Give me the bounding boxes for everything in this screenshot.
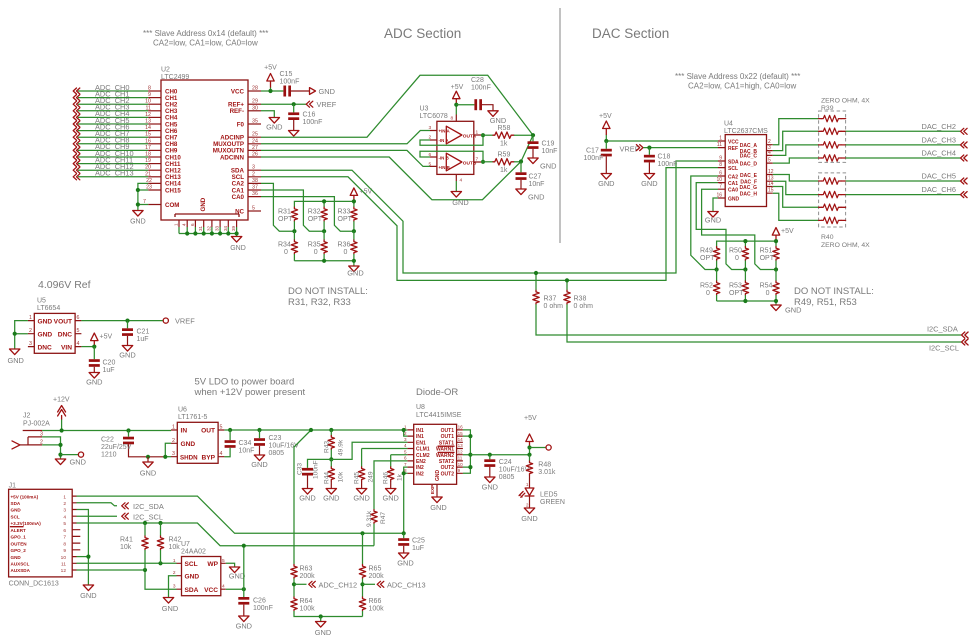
svg-text:U8: U8 xyxy=(416,404,425,411)
junction COM xyxy=(136,202,140,206)
ground dividers xyxy=(315,617,331,638)
junction U5 gnd xyxy=(13,332,17,336)
svg-text:GND: GND xyxy=(397,559,413,568)
svg-text:9: 9 xyxy=(458,468,461,473)
svg-text:100nF: 100nF xyxy=(280,79,300,86)
net stub ADC_CH9 xyxy=(73,142,161,153)
svg-text:IN1: IN1 xyxy=(416,434,424,440)
capacitor C16 100nF xyxy=(288,104,322,130)
resistor R40.3 xyxy=(819,204,846,210)
capacitor C20 1uF xyxy=(89,347,116,374)
ground for COM xyxy=(130,211,146,226)
svg-text:R31: R31 xyxy=(278,209,291,216)
svg-text:11: 11 xyxy=(458,456,463,461)
resistor R40.4 xyxy=(819,217,846,223)
svg-text:OUT2: OUT2 xyxy=(441,471,455,477)
svg-text:GND: GND xyxy=(382,494,398,503)
junction R37 top xyxy=(534,271,538,275)
svg-text:EN1: EN1 xyxy=(416,440,426,446)
wire CA1 to R32 xyxy=(261,190,324,231)
svg-text:100nF: 100nF xyxy=(584,155,604,162)
junction CH15 xyxy=(136,188,140,192)
svg-text:31: 31 xyxy=(198,225,203,231)
svg-text:GND: GND xyxy=(347,269,363,278)
junction rail R50 xyxy=(743,239,747,243)
svg-text:30: 30 xyxy=(252,105,258,111)
svg-text:ADC_CH13: ADC_CH13 xyxy=(387,580,426,589)
resistor R49 OPT xyxy=(700,247,720,270)
svg-text:VREF: VREF xyxy=(317,100,337,109)
U2 bottom GND pins xyxy=(174,220,237,237)
svg-text:ADCINN: ADCINN xyxy=(220,154,245,161)
svg-text:10nF: 10nF xyxy=(542,148,558,155)
svg-text:13: 13 xyxy=(458,443,464,448)
svg-text:LTC2499: LTC2499 xyxy=(161,74,189,81)
net stub ADC_CH7 xyxy=(73,129,161,140)
svg-text:DAC Section: DAC Section xyxy=(592,26,669,41)
ground U2 bus xyxy=(230,237,246,253)
svg-text:R50: R50 xyxy=(729,248,742,255)
svg-text:0: 0 xyxy=(766,290,770,297)
junction IN2 pin8 xyxy=(402,471,406,475)
svg-text:SCL: SCL xyxy=(728,166,738,172)
svg-text:WARN1: WARN1 xyxy=(436,447,454,453)
junction +5V/C17 xyxy=(604,139,608,143)
svg-text:R38: R38 xyxy=(574,296,587,303)
resistor R52 0 xyxy=(700,270,720,302)
svg-text:STAT2: STAT2 xyxy=(439,459,454,465)
wire DAC_H to R40.4 xyxy=(773,193,819,220)
svg-text:6: 6 xyxy=(63,528,66,534)
net stub ADC_CH1 xyxy=(73,89,161,100)
junction CA1 node xyxy=(322,229,326,233)
wire IN2 vertical from +5V(100mA) rail xyxy=(404,467,408,533)
svg-text:R33: R33 xyxy=(338,209,351,216)
svg-text:DAC_CH2: DAC_CH2 xyxy=(922,122,957,131)
net stub ADC_CH12 xyxy=(294,580,357,589)
svg-text:DNC: DNC xyxy=(58,331,73,338)
svg-text:0: 0 xyxy=(314,249,318,256)
svg-text:10nF: 10nF xyxy=(529,181,545,188)
ground C19 xyxy=(528,158,557,171)
svg-text:4.096V Ref: 4.096V Ref xyxy=(38,279,91,291)
pin NC stub xyxy=(248,206,261,212)
svg-text:14: 14 xyxy=(145,125,151,131)
svg-text:I2C_SDA: I2C_SDA xyxy=(133,502,164,511)
ground C16 xyxy=(289,131,299,137)
net DAC_CH6 xyxy=(846,185,968,198)
svg-text:GND: GND xyxy=(598,179,614,188)
resistor R32 OPT xyxy=(308,207,328,231)
ground U7 xyxy=(162,598,178,614)
svg-text:35: 35 xyxy=(252,119,258,125)
resistor R34 0 xyxy=(278,231,298,261)
wire +12V rail to U6 IN xyxy=(42,430,171,432)
svg-text:14: 14 xyxy=(458,437,464,442)
resistor R41 10k xyxy=(120,523,148,570)
svg-text:DAC_H: DAC_H xyxy=(740,192,758,198)
ic U7 24AA02 body xyxy=(181,541,221,596)
svg-text:100nF: 100nF xyxy=(303,119,323,126)
wire GND rail R52-R54 xyxy=(717,301,776,305)
svg-text:R47: R47 xyxy=(380,512,387,524)
junction divider gnd xyxy=(319,614,323,618)
svg-text:3.01k: 3.01k xyxy=(538,469,556,476)
svg-text:R34: R34 xyxy=(278,242,291,249)
junction R51/R54 xyxy=(774,267,778,271)
svg-text:39: 39 xyxy=(231,225,236,231)
junction VCC/C26 xyxy=(242,587,246,591)
svg-text:CH15: CH15 xyxy=(165,187,181,194)
svg-text:SDA: SDA xyxy=(11,501,21,506)
wire IN1 pin2 vertical xyxy=(404,430,408,436)
svg-text:GND: GND xyxy=(80,591,96,600)
junction OUTB feedback xyxy=(481,160,485,164)
svg-text:SCL: SCL xyxy=(11,514,20,519)
svg-text:1: 1 xyxy=(174,223,179,226)
svg-text:*** Slave Address 0x22 (defaul: *** Slave Address 0x22 (default) *** xyxy=(675,72,800,81)
junction +5V rail xyxy=(527,453,531,457)
svg-text:GND: GND xyxy=(140,469,156,478)
svg-text:CA2: CA2 xyxy=(728,174,738,180)
junction +5V tap xyxy=(309,428,313,432)
connector J2 PJ-002A xyxy=(12,413,50,449)
svg-text:1: 1 xyxy=(719,136,722,142)
led LED5 GREEN xyxy=(519,475,565,508)
ground C25 xyxy=(397,553,413,568)
svg-text:20: 20 xyxy=(145,165,151,171)
junction ADC_CH12 tap xyxy=(292,582,296,586)
ground R44 xyxy=(323,489,339,503)
capacitor C21 1uF xyxy=(122,321,149,346)
svg-text:C20: C20 xyxy=(103,360,116,367)
resistor R39.2 xyxy=(819,128,846,134)
svg-text:3: 3 xyxy=(63,508,66,514)
svg-text:R32: R32 xyxy=(308,209,321,216)
svg-text:ADC_CH12: ADC_CH12 xyxy=(319,580,358,589)
svg-text:CA0: CA0 xyxy=(232,194,245,201)
ground LED5 xyxy=(521,508,537,523)
svg-text:4: 4 xyxy=(222,584,225,590)
wire DAC_C to R39.3 xyxy=(773,145,819,156)
svg-text:5V LDO to power board: 5V LDO to power board xyxy=(195,377,295,388)
svg-text:R63: R63 xyxy=(300,566,313,573)
wire +5V rail R31-R33 xyxy=(294,201,354,207)
U6 pin stubs/numbers xyxy=(171,425,224,458)
svg-text:1: 1 xyxy=(173,558,176,564)
junction C24 xyxy=(488,453,492,457)
capacitor C25 1uF xyxy=(398,533,425,553)
svg-text:OPT: OPT xyxy=(700,255,715,262)
svg-text:9: 9 xyxy=(719,156,722,162)
junction C22 xyxy=(126,428,130,432)
svg-text:C25: C25 xyxy=(412,538,425,545)
svg-text:GND: GND xyxy=(705,216,721,225)
ground U3 V- xyxy=(451,192,469,208)
svg-text:200k: 200k xyxy=(369,573,385,580)
svg-text:ZERO OHM, 4X: ZERO OHM, 4X xyxy=(821,98,870,105)
svg-text:GREEN: GREEN xyxy=(540,499,565,506)
svg-text:R45: R45 xyxy=(354,472,361,484)
svg-text:OPT: OPT xyxy=(729,290,744,297)
junction ADC_CH13 tap xyxy=(360,582,364,586)
svg-text:CA2=low, CA1=low, CA0=low: CA2=low, CA1=low, CA0=low xyxy=(153,39,258,48)
svg-text:R66: R66 xyxy=(369,598,382,605)
svg-text:GND: GND xyxy=(119,351,135,360)
svg-text:R64: R64 xyxy=(300,598,313,605)
wire AUXSDA pin12 xyxy=(77,570,177,589)
junction R42 top xyxy=(158,521,162,525)
svg-text:DO NOT INSTALL:: DO NOT INSTALL: xyxy=(288,286,368,297)
capacitor C19 10nF xyxy=(528,135,558,158)
wire +5V output rail xyxy=(470,454,529,456)
svg-text:GND: GND xyxy=(490,116,506,125)
ic U5 LT6654 body xyxy=(34,298,75,354)
title 5V LDO xyxy=(194,377,306,399)
wire OUTA to R58 xyxy=(481,134,493,136)
wire U4 GND pin xyxy=(713,198,718,212)
wire CA0 to R33 xyxy=(261,197,354,232)
net stub ADC_CH10 xyxy=(73,149,161,160)
svg-text:C28: C28 xyxy=(471,77,484,84)
svg-text:4: 4 xyxy=(404,443,407,448)
svg-text:VOUT: VOUT xyxy=(54,318,72,325)
svg-text:-IN B: -IN B xyxy=(439,156,449,161)
net stub ADC_CH2 xyxy=(73,96,161,107)
svg-text:GND: GND xyxy=(299,494,315,503)
resistor R53 OPT xyxy=(729,270,749,302)
net stub I2C_SCL right xyxy=(929,339,968,353)
resistor R46 1k (CLM2) xyxy=(383,455,408,489)
wire GND rail R34-R36 xyxy=(294,261,354,266)
svg-text:12: 12 xyxy=(61,568,67,574)
wire ADCINN + guard bottom from R59 node xyxy=(261,135,533,200)
ic U3 LTC6078 body xyxy=(420,106,474,175)
net stub I2C_SCL at J1 xyxy=(77,513,164,522)
svg-text:R41: R41 xyxy=(120,537,133,544)
svg-text:0805: 0805 xyxy=(499,474,515,481)
svg-text:GND: GND xyxy=(540,162,556,171)
wire +5V to V+ pin8 xyxy=(451,105,457,122)
svg-text:C18: C18 xyxy=(658,154,671,161)
wire DAC_D to R39.4 xyxy=(773,158,819,163)
svg-text:GND: GND xyxy=(38,331,53,338)
svg-text:R53: R53 xyxy=(729,283,742,290)
wire U6 OUT +5V rail to U8 IN1 xyxy=(224,429,407,431)
svg-text:3: 3 xyxy=(29,341,32,347)
svg-text:C34: C34 xyxy=(239,440,252,447)
+12V symbol xyxy=(53,397,70,431)
junction +3.3V/C26 column xyxy=(242,544,246,548)
wire MUXOUTP into +INA xyxy=(261,131,430,144)
svg-text:13: 13 xyxy=(145,119,151,125)
resistor R59 1k xyxy=(493,152,521,174)
svg-text:23: 23 xyxy=(146,185,152,191)
svg-text:100nF: 100nF xyxy=(658,161,678,168)
svg-text:CA0: CA0 xyxy=(728,188,738,194)
svg-text:C24: C24 xyxy=(499,459,512,466)
svg-text:5: 5 xyxy=(252,206,255,212)
svg-text:GND: GND xyxy=(7,356,23,365)
svg-text:IN2: IN2 xyxy=(416,471,424,477)
resistor R42 10k xyxy=(157,523,181,563)
svg-text:DAC_D: DAC_D xyxy=(740,161,758,167)
junction REF+/C16 xyxy=(292,102,296,106)
svg-text:10uF/16V: 10uF/16V xyxy=(499,467,530,474)
resistor R39.1 xyxy=(819,115,846,121)
svg-text:GND: GND xyxy=(11,555,22,560)
svg-text:VCC: VCC xyxy=(728,139,739,145)
capacitor C18 100nF xyxy=(644,148,677,174)
svg-text:16: 16 xyxy=(458,425,464,430)
svg-text:CA1: CA1 xyxy=(728,181,738,187)
resistor R65 200k xyxy=(359,533,384,597)
wire VOUT to VREF port xyxy=(81,320,163,322)
junction rail R43 xyxy=(329,428,333,432)
svg-text:LTC6078: LTC6078 xyxy=(420,113,448,120)
port GND circle at J2 xyxy=(61,452,86,467)
+5V symbol at output xyxy=(524,415,537,455)
svg-text:F0: F0 xyxy=(237,121,245,128)
svg-text:GND: GND xyxy=(11,508,22,513)
svg-text:R31, R32, R33: R31, R32, R33 xyxy=(288,297,351,308)
svg-text:GND: GND xyxy=(521,514,537,523)
svg-text:GND: GND xyxy=(430,503,446,512)
junction VOUT/C21 xyxy=(125,319,129,323)
resistor R63 200k xyxy=(291,565,315,598)
svg-text:19: 19 xyxy=(145,158,151,164)
wire DAC_F to R40.2 xyxy=(773,181,819,194)
junction out vert 12 xyxy=(468,453,472,457)
svg-text:7: 7 xyxy=(143,199,146,205)
junction VIN/C20 xyxy=(92,345,96,349)
pin F0 stub xyxy=(248,119,261,125)
svg-text:9.31k: 9.31k xyxy=(366,510,373,527)
capacitor C17 100nF xyxy=(584,141,612,174)
svg-text:GND: GND xyxy=(266,123,282,132)
svg-text:10k: 10k xyxy=(169,544,181,551)
junction gnd bus pin10 xyxy=(86,555,90,559)
svg-text:0 ohm: 0 ohm xyxy=(574,303,594,310)
svg-text:22uF/25V: 22uF/25V xyxy=(101,444,132,451)
+5V for U3 xyxy=(451,84,464,105)
net DAC_CH3 xyxy=(846,135,968,148)
junction VCC/+5V xyxy=(268,89,272,93)
junction rail R33 xyxy=(352,199,356,203)
svg-text:IN2: IN2 xyxy=(416,465,424,471)
wire CA1(U4) to R50 xyxy=(696,183,745,270)
svg-text:R49: R49 xyxy=(700,248,713,255)
note DO NOT INSTALL R31 xyxy=(288,286,368,308)
svg-text:C17: C17 xyxy=(586,148,599,155)
svg-text:CONN_DC1613: CONN_DC1613 xyxy=(9,581,59,588)
pin REF+ wire to VREF xyxy=(248,99,306,105)
junction R41 top xyxy=(143,521,147,525)
svg-text:+5V (100mA): +5V (100mA) xyxy=(11,494,39,499)
resistor R58 1k xyxy=(493,125,533,147)
svg-text:2: 2 xyxy=(29,328,32,334)
ground U4 xyxy=(705,212,721,225)
+5V for R49-51 xyxy=(772,228,794,242)
junction CA0 node xyxy=(352,229,356,233)
svg-text:10nF: 10nF xyxy=(239,448,255,455)
svg-text:10: 10 xyxy=(61,555,67,561)
svg-text:OUT1: OUT1 xyxy=(441,434,455,440)
U4 left pin stubs/numbers xyxy=(716,136,725,199)
capacitor C34 10nF (to BYP) xyxy=(224,430,254,457)
svg-text:SDA: SDA xyxy=(185,587,199,594)
capacitor C26 100nF xyxy=(238,589,273,616)
svg-text:DAC_CH3: DAC_CH3 xyxy=(922,135,957,144)
svg-text:5: 5 xyxy=(404,449,407,454)
wire U7 WP to gnd xyxy=(226,563,235,567)
svg-text:0: 0 xyxy=(284,249,288,256)
svg-text:CLM1: CLM1 xyxy=(416,447,430,453)
svg-text:R42: R42 xyxy=(169,537,182,544)
svg-text:9: 9 xyxy=(148,92,151,98)
wire CA2 to R31 xyxy=(261,183,294,231)
net stub ADC_CH5 xyxy=(73,116,161,127)
svg-text:EXP: EXP xyxy=(430,485,435,494)
svg-text:+IN B: +IN B xyxy=(439,165,450,170)
wire ADCINP + guard top to R58 node xyxy=(261,75,533,137)
svg-text:+5V: +5V xyxy=(781,228,794,235)
svg-text:LED5: LED5 xyxy=(540,492,558,499)
svg-text:2: 2 xyxy=(172,438,175,444)
+5V at VCC xyxy=(264,65,277,92)
svg-text:100nF: 100nF xyxy=(313,460,320,479)
svg-text:DAC_CH4: DAC_CH4 xyxy=(922,149,957,158)
junction R42 bottom/AUXSCL xyxy=(158,561,162,565)
junction CA2 node xyxy=(292,229,296,233)
junction J2 gnd port xyxy=(58,453,62,457)
net stub ADC_CH13 xyxy=(73,169,161,180)
svg-text:15: 15 xyxy=(145,132,151,138)
junction R41 bottom/AUXSDA xyxy=(143,568,147,572)
ic U6 LT1761-5 body xyxy=(177,407,218,464)
net stub ADC_CH4 xyxy=(73,109,161,120)
ground C33 xyxy=(299,489,315,503)
junction R38 top xyxy=(565,278,569,282)
svg-text:1k: 1k xyxy=(500,167,508,174)
svg-text:J2: J2 xyxy=(23,413,31,420)
wire U7 GND pin xyxy=(169,576,177,598)
svg-text:+12V: +12V xyxy=(53,397,70,404)
junction +5V/C28 xyxy=(454,103,458,107)
junction gnd rail R35 xyxy=(322,259,326,263)
ground U8 xyxy=(430,497,446,512)
ground C23 xyxy=(251,455,267,469)
junction R58/C19/guard xyxy=(531,133,535,137)
svg-text:10: 10 xyxy=(458,462,464,467)
svg-text:CLM2: CLM2 xyxy=(416,453,430,459)
wire CA0(U4) to R51 xyxy=(702,189,776,269)
U8 left pin stubs/numbers xyxy=(404,425,414,474)
svg-text:1: 1 xyxy=(29,315,32,321)
svg-text:GND: GND xyxy=(435,470,441,482)
svg-text:U5: U5 xyxy=(37,298,46,305)
svg-text:33: 33 xyxy=(215,225,220,231)
svg-text:R36: R36 xyxy=(338,242,351,249)
resistor R39.4 xyxy=(819,155,846,161)
resistor R39.3 xyxy=(819,142,846,148)
svg-text:+3.3V(100mA): +3.3V(100mA) xyxy=(11,521,42,526)
ground WP xyxy=(229,567,245,581)
svg-text:OUTA: OUTA xyxy=(463,133,477,139)
junction C25/rail end xyxy=(402,531,406,535)
resistor R54 0 xyxy=(760,270,780,302)
junction J2 pin2 xyxy=(58,443,62,447)
